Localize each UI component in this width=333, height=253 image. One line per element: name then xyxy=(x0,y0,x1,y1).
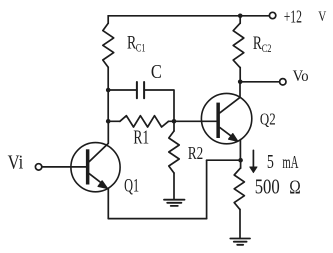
wire 500 ohm top lead xyxy=(240,160,242,168)
node capacitor left xyxy=(106,88,111,93)
node R1 right / Q2 base xyxy=(172,119,177,124)
svg-text:Ω: Ω xyxy=(289,177,301,199)
wire Q2 base lead xyxy=(174,120,216,122)
resistor RC1 xyxy=(103,23,114,67)
node Vo tap xyxy=(238,80,243,85)
terminal Vi xyxy=(35,164,41,170)
terminal +12V xyxy=(269,12,275,18)
resistor R2 xyxy=(169,131,179,173)
resistor RC2 xyxy=(233,23,244,67)
wire Q1 emitter down xyxy=(107,188,109,218)
wire Q1 collector lead xyxy=(89,121,108,161)
wire RC1 top lead xyxy=(107,16,109,23)
svg-text:R2: R2 xyxy=(188,143,203,163)
wire top rail xyxy=(108,15,240,17)
capacitor C xyxy=(137,82,144,98)
wire 500 ohm bottom lead xyxy=(239,209,241,238)
svg-text:mA: mA xyxy=(282,152,298,172)
svg-text:+12: +12 xyxy=(284,7,302,27)
wire RC2 top lead xyxy=(239,16,241,23)
wire R2 bottom lead xyxy=(173,173,175,199)
svg-text:V: V xyxy=(318,9,326,25)
current arrow 5 mA xyxy=(250,150,257,172)
wire capacitor right lead xyxy=(144,90,174,121)
wire R1 left lead xyxy=(108,120,120,122)
wire Q2 collector lead xyxy=(239,82,241,98)
wire emitter return vertical xyxy=(206,160,208,218)
transistor Q2 xyxy=(201,93,251,143)
node R1 left xyxy=(106,119,111,124)
wire capacitor left lead xyxy=(108,89,137,91)
wire +12V feed xyxy=(240,15,269,17)
wire RC2 bottom lead xyxy=(239,67,241,82)
wire R2 top lead xyxy=(173,121,175,131)
svg-text:Vi: Vi xyxy=(8,152,24,173)
wire Q2 emitter down xyxy=(239,140,241,161)
wire Q1 base lead xyxy=(42,166,86,168)
wire emitter return horizontal xyxy=(207,159,241,161)
transistor Q1 xyxy=(71,143,120,192)
svg-text:Q2: Q2 xyxy=(260,110,276,129)
svg-text:Vo: Vo xyxy=(293,68,309,85)
wire bottom rail xyxy=(108,218,206,220)
node Q2 emitter junction xyxy=(238,158,243,163)
svg-text:C2: C2 xyxy=(262,41,272,55)
svg-text:5: 5 xyxy=(267,152,274,173)
ground at R2 xyxy=(164,200,185,206)
wire RC1 bottom lead xyxy=(107,67,109,90)
svg-text:Q1: Q1 xyxy=(124,175,139,196)
terminal Vo xyxy=(280,79,286,85)
svg-text:R1: R1 xyxy=(133,127,149,149)
ground at 500 ohm xyxy=(230,239,250,245)
svg-text:C1: C1 xyxy=(136,41,146,55)
resistor 500 ohm xyxy=(234,168,244,209)
wire R1 right lead xyxy=(169,120,175,122)
svg-text:500: 500 xyxy=(255,175,280,199)
svg-text:C: C xyxy=(151,61,162,83)
resistor R1 xyxy=(120,116,169,127)
wire Vo feed xyxy=(240,81,279,83)
wire left vertical node segment xyxy=(107,90,109,121)
node top rail junction xyxy=(238,14,243,19)
